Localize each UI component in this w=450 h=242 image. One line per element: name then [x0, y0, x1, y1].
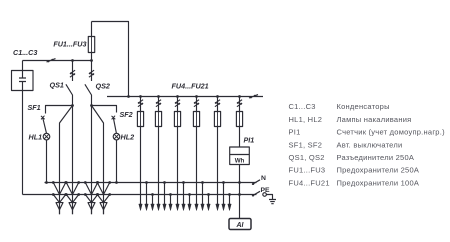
outgoing feeder arrow at feeder 4	[100, 203, 107, 215]
capacitor C1...C3	[12, 71, 34, 91]
svg-text:AI: AI	[236, 222, 245, 229]
node junction FU1 bottom feed	[90, 59, 93, 62]
svg-text:C1...C3: C1...C3	[13, 48, 37, 57]
svg-text:PI1: PI1	[244, 136, 255, 145]
disconnector QS1	[66, 61, 75, 106]
svg-text:QS1, QS2: QS1, QS2	[289, 153, 325, 162]
legend row SF1, SF2	[289, 140, 403, 149]
wire meter output	[239, 165, 241, 219]
node meter on PE bus	[238, 193, 241, 196]
detachable link PE bus end	[252, 191, 260, 196]
lamp HL2	[113, 133, 120, 140]
fuse FU8	[214, 112, 220, 127]
feeder tap diagonals at feeder 1	[52, 181, 67, 203]
fuse FU4	[137, 112, 143, 127]
meter PI1	[230, 147, 250, 165]
detachable link fuse FU9	[237, 97, 242, 112]
node QS1 output junction	[71, 104, 74, 107]
wire PE tap of group 4	[207, 193, 210, 210]
svg-text:FU4...FU21: FU4...FU21	[289, 178, 330, 187]
wire PE tap of group 3	[188, 193, 191, 210]
disconnector QS2	[85, 61, 94, 106]
svg-text:HL1, HL2: HL1, HL2	[289, 115, 323, 124]
lamp HL1	[43, 133, 50, 140]
wire QS1 feeder straight	[72, 106, 74, 215]
fuse FU6	[174, 112, 180, 127]
node fuse FU9 bus junction	[238, 95, 241, 98]
wire supply horizontal lead	[23, 60, 92, 62]
wire top loop to distribution bus	[92, 22, 129, 97]
wire HL2 to N bus	[116, 140, 118, 183]
svg-text:N: N	[261, 175, 266, 182]
legend row FU4...FU21	[289, 178, 420, 187]
wire fuse FU4 output	[139, 127, 142, 211]
outgoing feeder arrow at feeder 3	[88, 203, 95, 215]
breaker SF1	[41, 116, 47, 134]
wire N bus	[45, 182, 257, 184]
wire SF1 branch lead	[46, 106, 73, 114]
node bus feed junction	[127, 95, 130, 98]
svg-text:PI1: PI1	[289, 128, 301, 137]
feeder tap diagonals at feeder 3	[84, 181, 99, 203]
svg-text:HL2: HL2	[121, 133, 135, 142]
svg-text:C1...C3: C1...C3	[289, 102, 316, 111]
svg-text:Предохранители 250А: Предохранители 250А	[337, 166, 420, 175]
wire QS1 feeder left diagonal	[60, 106, 73, 215]
wire fuse FU8 output	[216, 127, 219, 211]
detachable link fuse FU6	[175, 97, 180, 112]
node HL1 on N bus	[45, 181, 48, 184]
node fuse FU8 bus junction	[216, 95, 219, 98]
fuse FU1...FU3	[88, 22, 94, 61]
detachable link at bus end	[249, 95, 258, 99]
detachable link fuse FU4	[138, 97, 143, 112]
svg-text:Wh: Wh	[235, 158, 245, 165]
ground	[266, 195, 276, 204]
feeder tap diagonals at feeder 4	[96, 181, 111, 203]
node HL2 on N bus	[115, 181, 118, 184]
svg-text:Предохранители 100А: Предохранители 100А	[337, 178, 420, 187]
wire fuse FU7 output	[195, 127, 198, 211]
node fuse FU6 bus junction	[176, 95, 179, 98]
svg-text:Конденсаторы: Конденсаторы	[337, 102, 390, 111]
legend row HL1, HL2	[289, 115, 412, 124]
node QS2 output junction	[90, 104, 93, 107]
breaker SF2	[112, 116, 117, 134]
svg-text:SF2: SF2	[120, 110, 133, 119]
node junction QS1 top feed	[71, 59, 74, 62]
legend row PI1	[289, 128, 446, 137]
svg-text:Авт. выключатели: Авт. выключатели	[337, 140, 403, 149]
detachable link N bus end	[252, 180, 260, 185]
legend row QS1, QS2	[289, 153, 415, 162]
svg-text:Лампы накаливания: Лампы накаливания	[337, 115, 412, 124]
node PE terminal	[263, 193, 267, 197]
wire fuse FU21 to meter	[239, 127, 241, 148]
wire N tap of group 5	[222, 181, 225, 210]
detachable link fuse FU5	[156, 97, 161, 112]
wire PE bus	[23, 194, 257, 196]
fuse FU5	[155, 112, 161, 127]
svg-text:SF1: SF1	[28, 103, 41, 112]
svg-text:QS2: QS2	[96, 82, 110, 91]
svg-text:Разъединители 250А: Разъединители 250А	[337, 153, 415, 162]
svg-text:Счетчик (учет домоупр.нагр.): Счетчик (учет домоупр.нагр.)	[337, 128, 446, 137]
fuse FU7	[193, 112, 199, 127]
wire PE tap of group 2	[169, 193, 172, 210]
svg-text:FU1...FU3: FU1...FU3	[289, 166, 326, 175]
wire N tap of group 3	[182, 181, 185, 210]
wire PE tap of group 5	[228, 193, 231, 210]
wire N tap of group 1	[145, 181, 148, 210]
device AI	[229, 219, 251, 230]
outgoing feeder arrow at feeder 1	[56, 203, 63, 215]
svg-text:SF1, SF2: SF1, SF2	[289, 140, 323, 149]
legend row FU1...FU3	[289, 166, 420, 175]
detachable link on supply lead	[47, 59, 56, 63]
fuse FU9	[236, 112, 242, 127]
detachable link fuse FU7	[194, 97, 199, 112]
wire QS2 feeder straight	[91, 106, 93, 215]
svg-text:HL1: HL1	[29, 133, 43, 142]
svg-text:QS1: QS1	[50, 81, 64, 90]
node fuse FU7 bus junction	[195, 95, 198, 98]
wire capacitor branch vertical	[22, 61, 24, 195]
outgoing feeder arrow at feeder 2	[69, 203, 76, 215]
wire distribution bus	[107, 96, 263, 98]
node meter on N bus	[238, 181, 241, 184]
wire fuse FU5 output	[157, 127, 160, 211]
wire SF2 branch lead	[92, 106, 117, 113]
wire PE tap of group 1	[151, 193, 154, 210]
legend row C1...C3	[289, 102, 390, 111]
svg-text:FU1...FU3: FU1...FU3	[53, 39, 86, 48]
detachable link fuse FU8	[215, 97, 220, 112]
wire N tap of group 4	[201, 181, 204, 210]
wire N tap of group 2	[163, 181, 166, 210]
wire QS2 feeder right diagonal	[92, 106, 104, 215]
node fuse FU4 bus junction	[139, 95, 142, 98]
wire fuse FU6 output	[176, 127, 179, 211]
wire HL1 to N bus	[46, 140, 48, 183]
svg-text:FU4...FU21: FU4...FU21	[172, 82, 209, 91]
feeder tap diagonals at feeder 2	[65, 181, 80, 203]
node fuse FU5 bus junction	[157, 95, 160, 98]
